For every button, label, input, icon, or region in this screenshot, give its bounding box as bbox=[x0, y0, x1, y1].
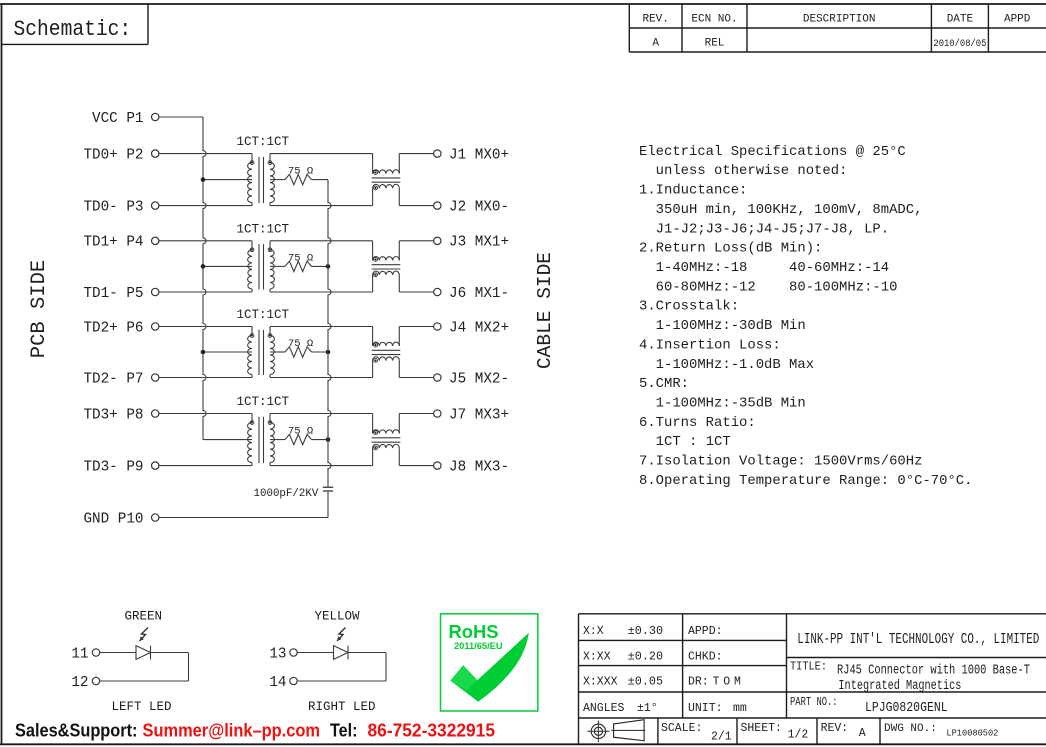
pin J6 (MX1-) bbox=[434, 288, 441, 295]
svg-text:1CT:1CT: 1CT:1CT bbox=[237, 222, 290, 236]
choke CM4 polarity dots bbox=[374, 431, 378, 435]
svg-text:75 Ω: 75 Ω bbox=[288, 166, 313, 178]
svg-text:GREEN: GREEN bbox=[125, 610, 163, 624]
svg-text:ANGLES: ANGLES bbox=[583, 702, 625, 715]
svg-text:2.Return Loss(dB Min):: 2.Return Loss(dB Min): bbox=[639, 241, 822, 257]
wire T2 secondary bottom to choke CM2 bbox=[270, 291, 373, 293]
transformer T4 core bbox=[258, 417, 260, 463]
transformer T2 primary center tap wire bbox=[203, 265, 252, 267]
choke CM3 right leads bbox=[398, 327, 400, 347]
transformer T3 secondary winding bbox=[269, 327, 271, 336]
transformer T4 secondary polarity dot bbox=[268, 421, 272, 425]
wire choke CM1 to J pin bottom bbox=[399, 205, 433, 207]
svg-text:DWG NO.:: DWG NO.: bbox=[884, 723, 937, 735]
pin P9 (TD3-) bbox=[152, 462, 159, 469]
svg-text:TD0+ P2: TD0+ P2 bbox=[83, 148, 143, 164]
pin J5 (MX2-) bbox=[434, 374, 441, 381]
wire TD0+ to transformer T1 bbox=[159, 153, 252, 155]
svg-text:4.Insertion Loss:: 4.Insertion Loss: bbox=[639, 337, 781, 353]
svg-text:±1°: ±1° bbox=[637, 702, 658, 715]
svg-text:1/2: 1/2 bbox=[788, 729, 809, 742]
wire T3 secondary bottom to choke CM3 bbox=[270, 377, 373, 379]
svg-text:J5 MX2-: J5 MX2- bbox=[449, 371, 509, 387]
choke CM1 polarity dots bbox=[374, 171, 378, 175]
svg-text:LP10080502: LP10080502 bbox=[946, 728, 998, 739]
choke CM2 polarity dots bbox=[374, 258, 378, 262]
node resistor R3 junction on common line bbox=[326, 350, 331, 355]
transformer T4 primary winding bbox=[251, 414, 253, 423]
svg-text:TD3+ P8: TD3+ P8 bbox=[83, 407, 143, 423]
svg-text:J7 MX3+: J7 MX3+ bbox=[449, 407, 509, 423]
svg-text:X:XX: X:XX bbox=[583, 651, 611, 664]
svg-text:J4 MX2+: J4 MX2+ bbox=[449, 320, 509, 336]
svg-text:TD2- P7: TD2- P7 bbox=[83, 371, 143, 387]
svg-text:13: 13 bbox=[269, 646, 286, 662]
choke CM3 left leads bbox=[372, 327, 374, 347]
wire choke CM1 to J pin top bbox=[399, 153, 433, 155]
transformer T3 secondary polarity dot bbox=[268, 334, 272, 338]
wire TD2+ to transformer T3 bbox=[159, 326, 252, 328]
svg-text:DR:: DR: bbox=[688, 676, 709, 689]
svg-text:350uH min, 100KHz, 100mV, 8mAD: 350uH min, 100KHz, 100mV, 8mADC, bbox=[639, 202, 922, 218]
wire TD3- to transformer T4 bbox=[159, 465, 252, 467]
resistor R4 75ohm bbox=[285, 434, 312, 444]
wire TD0- to transformer T1 bbox=[159, 205, 252, 207]
svg-text:75 Ω: 75 Ω bbox=[288, 252, 313, 264]
pin P1 (VCC) bbox=[152, 113, 159, 120]
choke CM3 top winding bbox=[373, 342, 400, 346]
svg-text:2/1: 2/1 bbox=[711, 731, 732, 744]
wire choke CM4 to J pin top bbox=[399, 413, 433, 415]
svg-text:A: A bbox=[652, 38, 659, 50]
node center tap T1 on VCC rail bbox=[201, 177, 206, 182]
svg-text:J1-J2;J3-J6;J4-J5;J7-J8, LP.: J1-J2;J3-J6;J4-J5;J7-J8, LP. bbox=[639, 221, 889, 237]
svg-text:APPD: APPD bbox=[1004, 14, 1031, 26]
title block grid bbox=[579, 613, 1046, 615]
resistor R1 75ohm bbox=[285, 174, 312, 184]
wire choke CM3 to J pin bottom bbox=[399, 377, 433, 379]
pin J7 (MX3+) bbox=[434, 410, 441, 417]
pin J2 (MX0-) bbox=[434, 202, 441, 209]
svg-text:75 Ω: 75 Ω bbox=[288, 338, 313, 350]
svg-text:1CT:1CT: 1CT:1CT bbox=[237, 308, 290, 322]
svg-text:CHKD:: CHKD: bbox=[688, 651, 723, 664]
choke CM3 core bbox=[372, 349, 401, 351]
transformer T3 secondary center tap wire bbox=[270, 351, 285, 353]
svg-text:UNIT:: UNIT: bbox=[688, 702, 723, 715]
svg-text:REV.: REV. bbox=[642, 14, 668, 26]
choke CM4 bottom winding bbox=[373, 444, 400, 448]
wire resistor R4 to common line bbox=[312, 439, 329, 441]
third-angle projection symbol bbox=[591, 724, 605, 738]
wire choke CM4 to J pin bottom bbox=[399, 465, 433, 467]
svg-text:1CT:1CT: 1CT:1CT bbox=[237, 395, 290, 409]
svg-text:SCALE:: SCALE: bbox=[661, 722, 702, 735]
pin P7 (TD2-) bbox=[152, 374, 159, 381]
transformer T2 secondary polarity dot bbox=[268, 248, 272, 252]
svg-text:APPD:: APPD: bbox=[688, 625, 723, 638]
transformer T3 core bbox=[258, 330, 260, 375]
pin P3 (TD0-) bbox=[152, 202, 159, 209]
svg-text:J8 MX3-: J8 MX3- bbox=[449, 460, 509, 476]
svg-text:1.Inductance:: 1.Inductance: bbox=[639, 183, 747, 199]
svg-text:J3 MX1+: J3 MX1+ bbox=[449, 235, 509, 251]
RoHS logo bbox=[441, 614, 538, 711]
svg-text:5.CMR:: 5.CMR: bbox=[639, 376, 689, 392]
svg-text:GND P10: GND P10 bbox=[83, 511, 143, 527]
svg-text:J1 MX0+: J1 MX0+ bbox=[449, 148, 509, 164]
svg-text:Electrical Specifications @ 25: Electrical Specifications @ 25°C bbox=[639, 144, 906, 160]
transformer T3 primary winding bbox=[251, 327, 253, 336]
schematic title box bbox=[147, 4, 149, 44]
svg-text:LPJG0820GENL: LPJG0820GENL bbox=[865, 701, 948, 716]
svg-text:7.Isolation Voltage: 1500Vrms/: 7.Isolation Voltage: 1500Vrms/60Hz bbox=[639, 454, 922, 470]
svg-text:RJ45 Connector with 1000 Base-: RJ45 Connector with 1000 Base-T bbox=[837, 664, 1030, 679]
wire T1 secondary bottom to choke CM1 bbox=[270, 205, 373, 207]
wire VCC P1 to rail bbox=[159, 116, 203, 118]
svg-text:14: 14 bbox=[269, 675, 286, 691]
svg-text:unless otherwise noted:: unless otherwise noted: bbox=[639, 163, 847, 179]
svg-text:1000pF/2KV: 1000pF/2KV bbox=[254, 488, 319, 500]
pin P10 (GND) bbox=[152, 514, 159, 521]
choke CM4 right leads bbox=[398, 414, 400, 434]
svg-text:LINK-PP INT'L TECHNOLOGY CO.,: LINK-PP INT'L TECHNOLOGY CO., LIMITED bbox=[797, 632, 1039, 648]
svg-text:RoHS: RoHS bbox=[449, 622, 499, 642]
transformer T2 primary polarity dot bbox=[250, 248, 254, 252]
svg-text:TD1+ P4: TD1+ P4 bbox=[83, 235, 143, 251]
svg-text:A: A bbox=[859, 727, 866, 740]
choke CM2 core bbox=[372, 264, 401, 266]
choke CM4 core bbox=[372, 437, 401, 439]
resistor R3 75ohm bbox=[285, 347, 312, 357]
pin P5 (TD1-) bbox=[152, 288, 159, 295]
svg-text:TD2+ P6: TD2+ P6 bbox=[83, 320, 143, 336]
transformer T1 secondary polarity dot bbox=[268, 161, 272, 165]
svg-text:2011/65/EU: 2011/65/EU bbox=[454, 641, 503, 651]
wire TD1- to transformer T2 bbox=[159, 291, 252, 293]
svg-text:Integrated Magnetics: Integrated Magnetics bbox=[838, 679, 961, 694]
svg-text:SHEET:: SHEET: bbox=[741, 722, 782, 735]
svg-text:ECN NO.: ECN NO. bbox=[691, 14, 737, 26]
transformer T1 core bbox=[258, 157, 260, 203]
svg-text:Schematic:: Schematic: bbox=[14, 17, 132, 42]
wire TD1+ to transformer T2 bbox=[159, 240, 252, 242]
svg-text:1-100MHz:-35dB Min: 1-100MHz:-35dB Min bbox=[639, 396, 806, 412]
revision table grid bbox=[628, 4, 630, 52]
transformer T1 primary polarity dot bbox=[250, 161, 254, 165]
transformer T2 secondary center tap wire bbox=[270, 265, 285, 267]
transformer T3 primary center tap wire bbox=[203, 351, 252, 353]
pin J4 (MX2+) bbox=[434, 323, 441, 330]
choke CM2 left leads bbox=[372, 241, 374, 261]
svg-text:6.Turns Ratio:: 6.Turns Ratio: bbox=[639, 415, 756, 431]
VCC rail (vertical, hops over TD wires) bbox=[203, 117, 206, 440]
choke CM4 top winding bbox=[373, 430, 400, 434]
LED D2 (yellow) circuit bbox=[290, 649, 297, 656]
node resistor R2 junction on common line bbox=[326, 264, 331, 269]
transformer T1 primary winding bbox=[251, 154, 253, 163]
node resistor R4 junction on common line bbox=[326, 437, 331, 442]
wire GND P10 to capacitor bbox=[159, 517, 328, 519]
pin P8 (TD3+) bbox=[152, 410, 159, 417]
svg-text:Sales&Support:Summer@link–pp.c: Sales&Support:Summer@link–pp.comTel:86-7… bbox=[15, 720, 495, 741]
svg-text:1-40MHz:-18 40-60MHz:-14: 1-40MHz:-18 40-60MHz:-14 bbox=[639, 260, 889, 276]
svg-text:TITLE:: TITLE: bbox=[790, 661, 827, 674]
svg-text:DESCRIPTION: DESCRIPTION bbox=[803, 14, 876, 26]
wire resistor R3 to common line bbox=[312, 351, 329, 353]
pin J8 (MX3-) bbox=[434, 462, 441, 469]
choke CM2 bottom winding bbox=[373, 271, 400, 275]
svg-text:±0.20: ±0.20 bbox=[628, 651, 663, 664]
node center tap T2 on VCC rail bbox=[201, 264, 206, 269]
transformer T1 secondary winding bbox=[269, 154, 271, 163]
svg-text:RIGHT LED: RIGHT LED bbox=[308, 700, 376, 714]
wire resistor R2 to common line bbox=[312, 265, 329, 267]
transformer T1 primary center tap wire bbox=[203, 179, 252, 181]
svg-text:60-80MHz:-12 80-100MHz:-10: 60-80MHz:-12 80-100MHz:-10 bbox=[639, 279, 897, 295]
transformer T4 primary polarity dot bbox=[250, 421, 254, 425]
choke CM4 left leads bbox=[372, 414, 374, 434]
wire T3 secondary top to choke CM3 bbox=[270, 326, 373, 328]
svg-text:±0.05: ±0.05 bbox=[628, 676, 663, 689]
transformer T3 primary polarity dot bbox=[250, 334, 254, 338]
svg-text:TD0- P3: TD0- P3 bbox=[83, 200, 143, 216]
pin P6 (TD2+) bbox=[152, 323, 159, 330]
svg-text:VCC P1: VCC P1 bbox=[92, 111, 143, 127]
svg-text:PCB SIDE: PCB SIDE bbox=[28, 260, 51, 358]
svg-text:YELLOW: YELLOW bbox=[315, 610, 361, 624]
svg-text:PART NO.:: PART NO.: bbox=[790, 696, 838, 709]
transformer T4 secondary center tap wire bbox=[270, 439, 285, 441]
wire choke CM2 to J pin bottom bbox=[399, 291, 433, 293]
svg-text:8.Operating Temperature Range:: 8.Operating Temperature Range: 0°C-70°C. bbox=[639, 473, 972, 489]
wire T1 secondary top to choke CM1 bbox=[270, 153, 373, 155]
pin P2 (TD0+) bbox=[152, 150, 159, 157]
common line (vertical, hops over secondary wires) bbox=[328, 180, 331, 488]
transformer T4 primary center tap wire bbox=[203, 439, 252, 441]
svg-text:DATE: DATE bbox=[947, 14, 974, 26]
wire TD3+ to transformer T4 bbox=[159, 413, 252, 415]
wire T4 secondary bottom to choke CM4 bbox=[270, 465, 373, 467]
choke CM1 top winding bbox=[373, 170, 400, 174]
svg-text:CABLE SIDE: CABLE SIDE bbox=[534, 252, 556, 369]
svg-text:2010/08/05: 2010/08/05 bbox=[933, 38, 986, 49]
capacitor C1 bottom lead bbox=[327, 491, 329, 518]
choke CM2 top winding bbox=[373, 257, 400, 261]
svg-text:3.Crosstalk:: 3.Crosstalk: bbox=[639, 299, 739, 315]
choke CM1 core bbox=[372, 177, 401, 179]
svg-text:1CT:1CT: 1CT:1CT bbox=[237, 135, 290, 149]
svg-text:11: 11 bbox=[71, 646, 88, 662]
svg-text:TD3- P9: TD3- P9 bbox=[83, 460, 143, 476]
svg-text:X:XXX: X:XXX bbox=[583, 676, 618, 689]
wire T4 secondary top to choke CM4 bbox=[270, 413, 373, 415]
svg-text:REV:: REV: bbox=[821, 722, 849, 735]
svg-text:J6 MX1-: J6 MX1- bbox=[449, 286, 509, 302]
choke CM3 bottom winding bbox=[373, 357, 400, 361]
transformer T2 secondary winding bbox=[269, 241, 271, 250]
resistor R2 75ohm bbox=[285, 261, 312, 271]
wire TD2- to transformer T3 bbox=[159, 377, 252, 379]
svg-text:LEFT LED: LEFT LED bbox=[112, 700, 172, 714]
svg-text:1-100MHz:-1.0dB Max: 1-100MHz:-1.0dB Max bbox=[639, 357, 814, 373]
transformer T1 secondary center tap wire bbox=[270, 179, 285, 181]
svg-text:TD1- P5: TD1- P5 bbox=[83, 286, 143, 302]
svg-text:±0.30: ±0.30 bbox=[628, 625, 663, 638]
svg-text:75 Ω: 75 Ω bbox=[288, 426, 313, 438]
svg-text:J2 MX0-: J2 MX0- bbox=[449, 200, 509, 216]
choke CM1 right leads bbox=[398, 154, 400, 174]
transformer T2 core bbox=[258, 244, 260, 289]
choke CM2 right leads bbox=[398, 241, 400, 261]
transformer T4 secondary winding bbox=[269, 414, 271, 423]
svg-text:TOM: TOM bbox=[713, 676, 745, 689]
svg-text:1CT : 1CT: 1CT : 1CT bbox=[639, 434, 731, 450]
pin P4 (TD1+) bbox=[152, 237, 159, 244]
choke CM1 bottom winding bbox=[373, 184, 400, 188]
wire choke CM3 to J pin top bbox=[399, 326, 433, 328]
svg-text:X:X: X:X bbox=[583, 625, 604, 638]
transformer T2 primary winding bbox=[251, 241, 253, 250]
wire choke CM2 to J pin top bbox=[399, 240, 433, 242]
node center tap T3 on VCC rail bbox=[201, 350, 206, 355]
wire resistor R1 to common line bbox=[312, 179, 329, 181]
pin J1 (MX0+) bbox=[434, 150, 441, 157]
LED D1 (green) circuit bbox=[92, 649, 99, 656]
capacitor C1 1000pF/2KV plates bbox=[323, 486, 333, 488]
choke CM3 polarity dots bbox=[374, 343, 378, 347]
svg-text:REL: REL bbox=[705, 38, 725, 50]
choke CM1 left leads bbox=[372, 154, 374, 174]
svg-text:1-100MHz:-30dB Min: 1-100MHz:-30dB Min bbox=[639, 318, 806, 334]
svg-text:12: 12 bbox=[71, 675, 88, 691]
svg-text:mm: mm bbox=[733, 702, 747, 715]
pin J3 (MX1+) bbox=[434, 237, 441, 244]
wire T2 secondary top to choke CM2 bbox=[270, 240, 373, 242]
